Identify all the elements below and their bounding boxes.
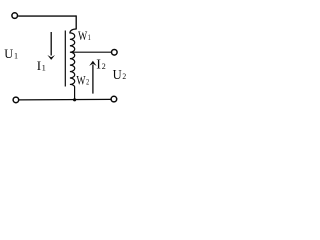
wire top-right vertical [75, 15, 77, 29]
arrow I2 (upward) [92, 65, 94, 94]
terminal right middle [112, 50, 118, 56]
wire top horizontal [18, 15, 76, 17]
wire coil bottom vertical [74, 86, 76, 99]
winding coil [70, 29, 76, 87]
wire bottom horizontal [19, 98, 111, 101]
terminal bottom-left [13, 97, 19, 103]
terminal top-left [12, 13, 18, 19]
arrow I1 (downward) [50, 32, 52, 56]
junction dot [73, 98, 76, 101]
wire middle tap [71, 51, 112, 53]
core line [64, 31, 66, 87]
terminal bottom-right [111, 96, 117, 102]
